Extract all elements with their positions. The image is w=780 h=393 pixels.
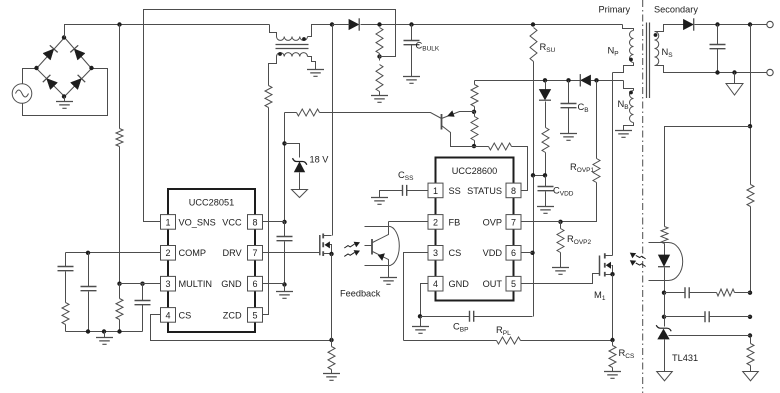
resistor RH (base series) [297, 109, 320, 116]
svg-text:ZCD: ZCD [223, 310, 242, 320]
resistor RC (VO_SNS divider upper) [376, 28, 383, 54]
resistor R2 (PFC current sense) [328, 347, 335, 370]
isolation boundary (primary/secondary) [642, 0, 644, 393]
phase dot N_P [629, 58, 633, 62]
capacitor C_BP [421, 316, 470, 318]
ground at comp network [104, 332, 106, 338]
ground at R_CS [604, 372, 621, 379]
svg-text:CVDD: CVDD [553, 185, 574, 198]
svg-text:COMP: COMP [179, 248, 207, 258]
svg-text:VO_SNS: VO_SNS [179, 217, 216, 227]
svg-text:NP: NP [608, 45, 619, 58]
shunt regulator U4 TL431 [656, 325, 671, 331]
wire: rail segments around boost diode [333, 24, 350, 26]
opto U3 LED package arc [669, 243, 683, 281]
node: comp C junction [748, 315, 752, 319]
wire: R_SU down to VDD node (crosses bias line) [533, 62, 535, 176]
wire: N_B bottom to ground [624, 123, 634, 131]
node: MULTIN filter branch [140, 282, 144, 286]
svg-text:NB: NB [618, 98, 629, 111]
svg-text:1: 1 [165, 217, 170, 227]
wire: rectified bus from bridge top to PFC inductor [65, 25, 270, 38]
svg-text:1: 1 [433, 186, 438, 196]
wire: divider drop from rectified bus [119, 25, 121, 129]
wire: STATUS resistor to pin 8 [512, 147, 528, 191]
wire: aux winding left to ZCD resistor [269, 57, 277, 86]
wire: pin4 GND out [421, 284, 429, 317]
svg-text:Primary: Primary [599, 5, 631, 15]
wire: divider lower leads [119, 284, 121, 299]
wire: pin6 GND to node [263, 283, 285, 285]
svg-text:7: 7 [252, 248, 257, 258]
U2 left pins 1-4 (SS FB CS GND) [428, 183, 443, 198]
capacitor C5 (comp zero) [665, 292, 686, 294]
wire: R_OVP1 to OVP pin [522, 183, 597, 222]
svg-text:4: 4 [433, 279, 438, 289]
wire: VDD node tie [534, 175, 546, 177]
node: C_BULK at rail [409, 22, 413, 26]
node: output return junctions [715, 70, 719, 74]
wire: PFC source down to sense node [331, 254, 333, 341]
arrow ground below 18V zener [292, 190, 308, 198]
svg-text:STATUS: STATUS [467, 186, 502, 196]
core of T1 [647, 23, 650, 99]
ground at UCC28600 GND [420, 317, 422, 327]
wire: pin3 CS down to R_PL line [404, 253, 429, 341]
resistor RE (bias series) [542, 128, 549, 153]
wire: COMP line [66, 252, 161, 254]
svg-text:FB: FB [449, 217, 461, 227]
svg-text:GND: GND [221, 279, 242, 289]
node: VDD rail junctions [531, 173, 535, 177]
node: TL431 cathode junction [662, 315, 666, 319]
AC source V1 [12, 84, 32, 104]
resistor R6 (comp zero) [717, 289, 735, 296]
resistor R-ZCD [265, 86, 272, 108]
wire: AC source bottom return to bridge right node [23, 69, 108, 116]
wire: divider tap connector [379, 54, 381, 61]
op-amp U2 UCC28600 body [436, 158, 514, 301]
node: R_SU top at rail [531, 22, 535, 26]
resistor RB (MULTIN divider lower) [116, 299, 123, 320]
wire: tap down to R_OVP1 [596, 81, 598, 159]
capacitor C3 (MULTIN filter) [142, 284, 144, 301]
terminal: VOUT+ [767, 21, 773, 27]
node: M1 source/body tie [610, 272, 614, 276]
svg-text:6: 6 [511, 248, 516, 258]
svg-text:UCC28051: UCC28051 [189, 198, 234, 208]
wire: VCC line from base corner down [284, 113, 286, 222]
svg-text:6: 6 [252, 279, 257, 289]
diode D6 (bias rectifier to C_VDD) [545, 81, 547, 90]
phase dot L1 main winding [302, 37, 306, 41]
wire: pin5 OUT to M1 gate [522, 274, 600, 284]
resistor R1 (COMP) [62, 303, 69, 325]
resistor RG (startup lower) [474, 112, 476, 117]
core of L1 [276, 45, 309, 49]
wire: rail into N_P [623, 25, 634, 31]
wire: startup resistor chain top [474, 81, 476, 85]
diode D7 (bootstrap from N_B) [581, 75, 591, 85]
wire: collector node to STATUS resistor [475, 146, 489, 148]
node: output rail junctions [715, 22, 719, 26]
node: GND pin junction [282, 282, 286, 286]
bridge rectifier frame [37, 38, 65, 69]
transformer T1 winding N_S [655, 32, 659, 66]
wire: TL431 REF to divider [669, 335, 751, 337]
resistor R_OVP1 [593, 159, 600, 183]
wire: bias line to N_B top [624, 81, 634, 91]
resistor R_SU [530, 28, 537, 62]
svg-text:2: 2 [433, 217, 438, 227]
U1 left pins 1-4 (VO_SNS COMP MULTIN CS) [161, 215, 176, 230]
U2 right pins 8-5 (STATUS OVP VDD OUT) [506, 183, 521, 198]
bridge diode D3 (bottom-to-left arm) [47, 79, 58, 90]
phase dot N_B [629, 91, 633, 95]
svg-text:DRV: DRV [222, 248, 242, 258]
capacitor C_VDD [545, 176, 547, 187]
capacitor C4 (output filter) [717, 25, 719, 45]
resistor R4 (divider lower) [750, 337, 752, 344]
zener D8 18 V [293, 158, 307, 165]
svg-text:7: 7 [511, 217, 516, 227]
wire: boost output rail to primary [380, 24, 623, 26]
node: LED cathode junction [662, 291, 666, 295]
resistor R3 (divider upper) [747, 185, 754, 207]
opto U3 phototransistor [371, 239, 373, 255]
wire: pin4 CS to sense node [151, 315, 332, 341]
PFC boost inductor L1 main winding [277, 37, 308, 41]
node: VO_SNS divider tap [377, 54, 381, 58]
wire: output rail [695, 24, 768, 26]
svg-text:CSS: CSS [398, 169, 414, 182]
ground at R_OVP2 [552, 268, 569, 275]
node: rectified bus / MULTIN divider tap [117, 22, 121, 26]
wire: M1 drain from primary [612, 73, 614, 256]
opto U3 LED leads [649, 242, 669, 244]
PFC aux (ZCD) winding of L1 [277, 53, 308, 57]
node: REF junction [748, 333, 752, 337]
wire: LED cathode to TL431 [664, 293, 666, 327]
capacitor C-VCC [284, 222, 286, 237]
svg-text:8: 8 [252, 217, 257, 227]
resistor RA (MULTIN divider upper) [116, 129, 123, 147]
bridge diode D4 (bottom-to-right arm) [71, 79, 82, 90]
svg-text:CB: CB [578, 101, 589, 114]
ground at bridge negative output [64, 97, 66, 102]
transformer T1 winding N_B [630, 91, 634, 123]
wire: N_P bottom to M1 drain line [613, 63, 634, 73]
node: R_OVP2 branch on OVP line [558, 220, 562, 224]
node: PFC source sense junction [329, 338, 333, 342]
resistor R_CS [609, 346, 616, 368]
node: emitter node [472, 110, 476, 114]
resistor R_OVP2 [560, 222, 562, 229]
wire: MULTIN line [120, 283, 161, 285]
svg-text:OUT: OUT [483, 279, 503, 289]
wire: boost winding to output rail [308, 25, 333, 37]
wire: M1 source to R_CS [612, 275, 614, 341]
node: MULTIN junction [117, 282, 121, 286]
wire: opto emitter to ground [388, 266, 390, 278]
wire: N_S bottom to output return [655, 66, 768, 73]
ground at opto emitter [380, 278, 397, 285]
svg-text:5: 5 [511, 279, 516, 289]
wire: base resistor to VCC line corner [285, 112, 297, 114]
node: boost diode anode / PFC drain [330, 22, 334, 26]
svg-text:SS: SS [449, 186, 461, 196]
wire: pin7 DRV to PFC gate [263, 252, 320, 254]
node: bottom rail junctions [86, 329, 90, 333]
capacitor C6 (comp) [665, 316, 706, 318]
capacitor C_SS [407, 190, 428, 192]
svg-text:GND: GND [449, 279, 470, 289]
resistor RD (VO_SNS divider lower) [376, 65, 383, 92]
node: D7 anode / R_OVP1 tap [594, 78, 598, 82]
ground at aux winding [307, 70, 324, 77]
op-amp U1 UCC28051 body [168, 189, 255, 332]
wire: RF to emitter node [474, 107, 476, 112]
node: PFC source/body tie [329, 252, 333, 256]
wire: bus entry into boost winding [270, 25, 277, 37]
wire: VDD line down to pin6 branch [533, 176, 535, 317]
diode D9 (output rectifier) [684, 20, 694, 30]
svg-text:RCS: RCS [619, 347, 635, 360]
bridge diode D1 (left-to-top arm) [43, 49, 54, 60]
wire: pin8 VCC to node [263, 221, 285, 223]
wire: comp network bottom rail [66, 331, 143, 333]
svg-text:TL431: TL431 [672, 353, 698, 363]
node: VDD pin junction [530, 251, 534, 255]
node: GND/C_BP junction [418, 314, 422, 318]
svg-text:OVP: OVP [483, 217, 502, 227]
svg-text:MULTIN: MULTIN [179, 279, 213, 289]
transformer T1 winding N_P [630, 31, 634, 63]
ground at N_B [615, 131, 632, 138]
LED D10 (opto emitter diode) [664, 244, 666, 256]
bridge diode D2 (right-to-top arm) [74, 49, 85, 60]
capacitor C_BULK [411, 25, 413, 41]
boost diode D5 [349, 20, 359, 30]
svg-text:UCC28600: UCC28600 [452, 166, 497, 176]
svg-text:5: 5 [252, 310, 257, 320]
wire: branch to zener [285, 144, 300, 158]
ground at PFC sense resistor [323, 374, 340, 381]
svg-text:18 V: 18 V [310, 155, 330, 165]
wire: divider mid [750, 207, 752, 293]
terminal: VOUT- [767, 69, 773, 75]
wire: PFC drain from boost node [332, 25, 334, 236]
wire: R_PL line [404, 340, 497, 342]
node: comp RC junction [748, 291, 752, 295]
phase dot N_S [654, 33, 658, 37]
svg-text:8: 8 [511, 186, 516, 196]
wire: opto feed branch [665, 127, 751, 227]
svg-text:Secondary: Secondary [654, 5, 698, 15]
svg-text:Feedback: Feedback [340, 289, 381, 299]
wire: Q1 base from bias resistor [320, 113, 442, 119]
node: divider top at rail [377, 22, 381, 26]
wire: aux winding right end to ground [308, 57, 316, 70]
arrow ground at TL431 [657, 372, 673, 381]
node: 18V zener branch [282, 141, 286, 145]
svg-text:CS: CS [449, 248, 462, 258]
transistor Q1 (PNP startup) [441, 114, 443, 130]
svg-text:2: 2 [165, 248, 170, 258]
arrow ground at output return [734, 73, 736, 84]
node: bridge corner junctions [62, 35, 66, 39]
resistor RF (startup upper) [471, 85, 478, 107]
ground at UCC28051 GND [284, 285, 286, 292]
wire: pin6 VDD to node [522, 252, 533, 254]
wire: opto collector to FB pin [389, 221, 428, 223]
U1 right pins 8-5 (VCC DRV GND ZCD) [248, 215, 263, 230]
wire: divider line from output rail [750, 25, 752, 185]
svg-text:CBP: CBP [453, 321, 468, 334]
svg-text:3: 3 [165, 279, 170, 289]
wire: bias series resistor to VDD node [545, 153, 547, 176]
opto U3 phototransistor leads [365, 226, 389, 228]
svg-text:ROVP2: ROVP2 [567, 233, 592, 246]
transistor M1 (flyback MOSFET) [599, 256, 601, 276]
node: R_CS junction [610, 338, 614, 342]
svg-text:ROVP1: ROVP1 [570, 161, 595, 174]
wire: bias rail [475, 80, 624, 82]
ground at VO_SNS divider [371, 96, 388, 103]
wire: ZCD resistor down to ZCD pin [263, 108, 269, 315]
ground at C_SS [371, 198, 388, 205]
capacitor C_B [568, 81, 570, 104]
capacitor C1 (COMP lead-lag) [65, 253, 67, 267]
svg-text:RPL: RPL [496, 324, 511, 337]
svg-text:CBULK: CBULK [416, 40, 440, 53]
node: collector node [472, 144, 476, 148]
resistor RJ (STATUS series) [489, 143, 512, 150]
transistor Q2 (PFC MOSFET) [319, 235, 321, 255]
wire: divider to MULTIN pin (crosses COMP wire) [119, 147, 121, 284]
svg-text:4: 4 [165, 310, 170, 320]
wire: pin7 OVP out [522, 221, 561, 223]
node: opto feed tap [748, 124, 752, 128]
node: C_B branch [566, 78, 570, 82]
wire: N_S top to output rail [655, 25, 684, 32]
capacitor C2 (COMP) [88, 253, 90, 287]
svg-text:NS: NS [662, 46, 674, 59]
svg-text:M1: M1 [594, 289, 606, 302]
svg-text:VDD: VDD [483, 248, 503, 258]
svg-text:RSU: RSU [540, 41, 556, 54]
node: COMP branch [86, 251, 90, 255]
wire: VO_SNS sense line to pin 1 [144, 10, 396, 222]
phase dot L1 aux winding [278, 52, 282, 56]
svg-text:VCC: VCC [222, 217, 242, 227]
resistor R5 (LED series) [661, 227, 668, 244]
svg-text:3: 3 [433, 248, 438, 258]
opto U3 LED light arrows [636, 255, 646, 266]
opto U3 package arc [389, 226, 400, 265]
arrow ground at divider bottom [743, 372, 759, 381]
node: VCC pin junction [282, 220, 286, 224]
svg-text:CS: CS [179, 310, 192, 320]
node: bias diode branch [543, 78, 547, 82]
wire: AC source to bridge left node [23, 69, 37, 84]
opto U3 light arrows [344, 244, 354, 256]
resistor R_PL [497, 337, 521, 344]
